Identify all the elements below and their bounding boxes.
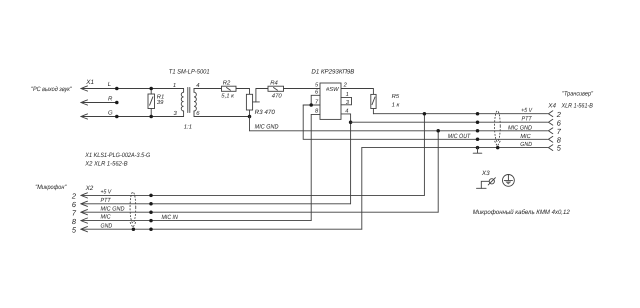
connector X2 arrow 8 <box>81 218 88 223</box>
node junction R3 bottom <box>248 115 252 119</box>
svg-text:XLR 1-561-B: XLR 1-561-B <box>561 103 593 110</box>
svg-text:X1: X1 <box>85 79 94 86</box>
node cable dot +5V <box>476 112 480 116</box>
connector X4 pin chevron 7 <box>548 128 552 134</box>
wire L: X1 to T1 pin1 <box>81 88 184 90</box>
svg-text:X4: X4 <box>547 103 556 110</box>
node cable dot MIC (X2) <box>149 219 153 223</box>
svg-text:39: 39 <box>157 99 164 106</box>
svg-text:X2: X2 <box>85 185 94 192</box>
node cable dot +5V (X2) <box>149 194 153 198</box>
wire X2 MIC line <box>81 220 311 222</box>
svg-text:MIC: MIC <box>520 133 531 140</box>
svg-text:R5: R5 <box>392 93 400 100</box>
svg-text:L: L <box>108 81 111 88</box>
wire R: X1 stub <box>81 102 117 104</box>
wire PTT line to X4 <box>351 121 548 123</box>
node cable dot G <box>115 115 119 119</box>
wire G: X1 to T1 pin3 <box>81 116 184 118</box>
svg-text:"РС выход звук": "РС выход звук" <box>31 86 72 93</box>
svg-text:+5 V: +5 V <box>101 189 113 196</box>
connector X2 arrow 5 <box>81 227 88 232</box>
connector X2 arrow 2 <box>81 193 88 198</box>
svg-text:MIC IN: MIC IN <box>162 214 179 221</box>
node cable dot L <box>115 87 119 91</box>
transformer T1 <box>173 82 200 130</box>
wire X2 GND line <box>81 228 362 230</box>
svg-text:T1 SM-LP-5001: T1 SM-LP-5001 <box>169 68 210 75</box>
svg-text:1: 1 <box>173 82 176 89</box>
wire X2 MIC GND line <box>81 211 438 213</box>
node cable dot MIC <box>476 138 480 142</box>
node junction MIC GND riser <box>436 129 440 133</box>
wire R4 to D1 pin5 <box>284 88 321 90</box>
resistor R4 <box>268 79 284 99</box>
svg-text:"Микрофон": "Микрофон" <box>35 184 67 191</box>
node cable dot PTT (X2) <box>149 202 153 206</box>
wire D1 pins1-3 loop <box>341 97 352 104</box>
resistor R3 (trimmer) <box>246 89 275 117</box>
wire junction down to MIC GND line <box>249 117 251 131</box>
node junction +5V riser <box>423 112 427 116</box>
svg-text:GND: GND <box>520 141 532 148</box>
wire X2 +5V line <box>81 194 424 196</box>
connector X4 pin chevron 2 <box>548 111 552 117</box>
wire D1 pin4 to PTT <box>341 114 351 204</box>
svg-text:R4: R4 <box>270 79 278 86</box>
wire T1 pin6 to R3 bottom junction <box>194 116 250 118</box>
wire +5V line to X4 <box>373 113 547 115</box>
svg-text:MIC: MIC <box>101 214 112 221</box>
svg-text:PTT: PTT <box>101 197 112 204</box>
connector X1 arrow G <box>81 114 88 119</box>
svg-text:R3 470: R3 470 <box>255 109 276 116</box>
connector X2 arrow 7 <box>81 210 88 215</box>
wire MIC GND line to X4 <box>250 130 548 132</box>
svg-text:470: 470 <box>272 92 283 99</box>
resistor R1 <box>148 87 164 119</box>
svg-text:MIC GND: MIC GND <box>255 124 279 131</box>
node cable dot GND (X2) <box>149 227 153 231</box>
connector X3 <box>477 178 496 189</box>
node cable dot R <box>115 101 119 105</box>
node shield drain dot <box>496 146 500 150</box>
wire R2 to R3 top <box>236 89 250 95</box>
connector X4 pin chevron 6 <box>548 119 552 125</box>
connector X4 pin chevron 5 <box>548 145 552 151</box>
node cable dot MIC GND <box>476 129 480 133</box>
wire GND riser down to X2 GND <box>361 148 363 230</box>
wire pin8 riser down to X2 MIC line <box>310 114 312 220</box>
svg-text:GND: GND <box>101 222 113 229</box>
wire R3 wiper to R4 <box>256 88 268 90</box>
svg-text:MIC GND: MIC GND <box>508 124 533 131</box>
wire D1 pin7 to riser <box>303 104 320 106</box>
ground <box>473 148 482 154</box>
wire MIC GND riser <box>437 131 439 212</box>
cable shield X4 (dashed ellipse) <box>495 111 501 147</box>
transistor Q1 : D1 body (analog switch IC) <box>320 83 341 119</box>
wire X2 PTT line <box>81 203 351 205</box>
node cable dot PTT <box>476 120 480 124</box>
node shield drain dot (X2) <box>132 227 136 231</box>
node junction pin6/pin7 <box>309 103 313 107</box>
cable shield X2 (dashed ellipse) <box>130 192 136 228</box>
svg-text:MIC OUT: MIC OUT <box>448 133 472 140</box>
svg-text:"Трансивер": "Трансивер" <box>562 91 594 98</box>
svg-text:X1 KLS1-PLG-002A-3.5-G: X1 KLS1-PLG-002A-3.5-G <box>84 152 150 159</box>
wire pin7 riser down and MIC OUT line <box>303 105 547 139</box>
svg-text:Микрофонный кабель КММ 4х0,1: Микрофонный кабель КММ 4х0,12 <box>473 209 570 216</box>
svg-text:1:1: 1:1 <box>184 123 192 130</box>
resistor R2 <box>221 79 236 99</box>
wire D1 pin6 stub down to pin7 <box>311 95 320 105</box>
node cable dot MIC GND (X2) <box>149 210 153 214</box>
svg-text:PTT: PTT <box>522 116 533 123</box>
ground (protective earth in circle) <box>503 175 515 187</box>
node cable dot GND <box>476 146 480 150</box>
svg-text:D1 КР293КП9В: D1 КР293КП9В <box>311 68 354 75</box>
svg-text:G: G <box>108 110 113 117</box>
wire T1 pin4 to R2 <box>194 88 222 90</box>
svg-text:5,1 к: 5,1 к <box>221 92 234 99</box>
svg-text:+5 V: +5 V <box>521 107 533 114</box>
wire D1 pin8 stub <box>311 113 320 115</box>
connector X4 pin chevron 8 <box>548 136 552 142</box>
svg-text:1 к: 1 к <box>392 102 400 109</box>
connector X2 arrow 6 <box>81 201 88 206</box>
svg-text:R2: R2 <box>223 79 231 86</box>
resistor R5 <box>371 93 400 114</box>
svg-text:R: R <box>108 96 113 103</box>
svg-text:X3: X3 <box>481 170 490 177</box>
wire +5V riser down to X2 +5V <box>423 114 425 196</box>
node junction PTT <box>349 120 353 124</box>
svg-text:#SW: #SW <box>326 86 339 93</box>
wire GND line to X4 <box>362 147 548 149</box>
connector X1 arrow L <box>81 86 88 91</box>
svg-text:4: 4 <box>345 108 348 114</box>
wire D1 pin2 to R5 <box>341 89 373 95</box>
svg-text:X2 XLR 1-562-B: X2 XLR 1-562-B <box>84 161 127 168</box>
svg-text:MIC GND: MIC GND <box>101 205 126 212</box>
connector X1 arrow R <box>81 100 88 105</box>
